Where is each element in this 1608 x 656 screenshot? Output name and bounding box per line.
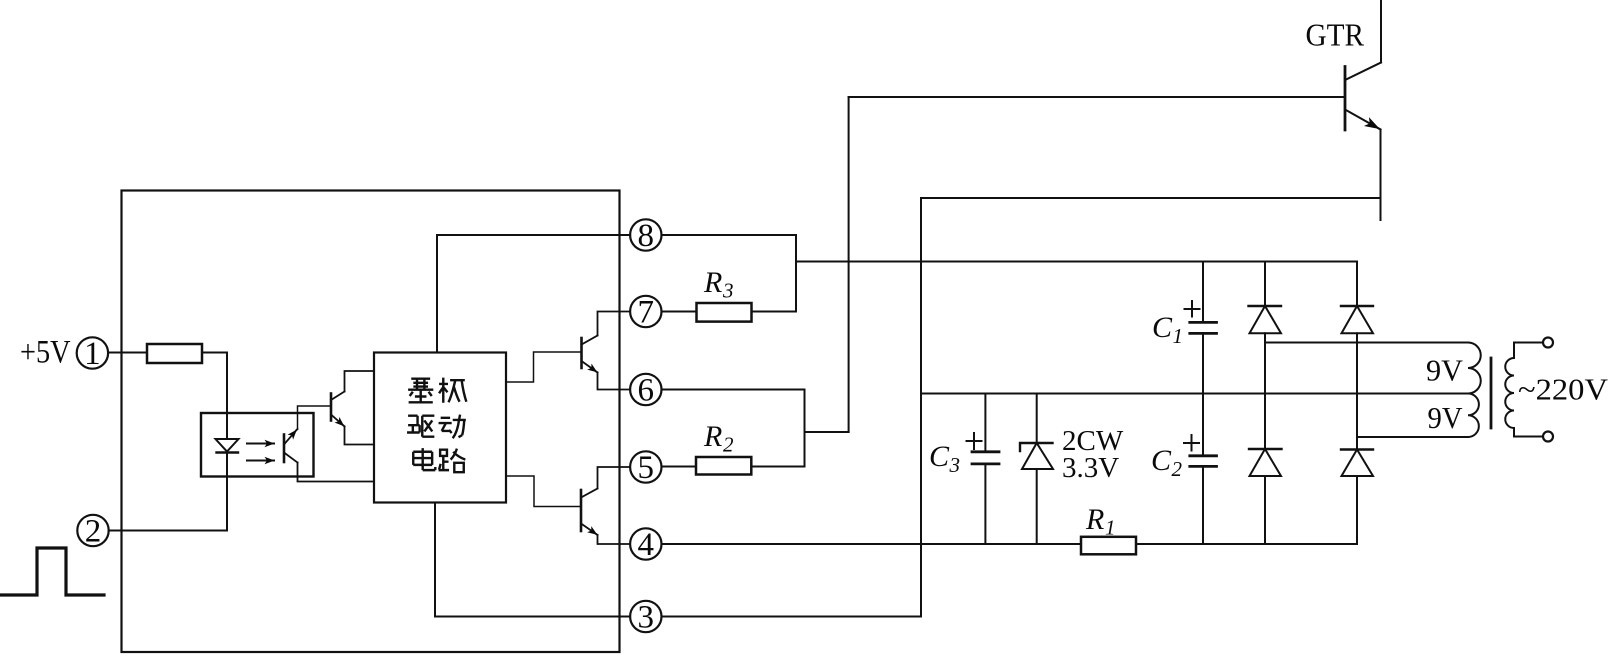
base drive circuit box U1 (374, 353, 506, 503)
wire GTR base riser (848, 97, 850, 432)
zener diode 2CW 3.3V (1020, 394, 1053, 545)
wire R2 to junction (751, 466, 804, 468)
transistor Q3 (582, 312, 631, 390)
svg-text:3: 3 (949, 453, 961, 477)
svg-text:+5V: +5V (20, 335, 71, 371)
wire pin8 to U1 top (437, 235, 630, 353)
svg-text:C: C (1152, 311, 1173, 344)
terminal bottom (1543, 432, 1553, 442)
svg-text:9V: 9V (1426, 353, 1464, 388)
transformer T1 primary coil (1505, 343, 1514, 437)
terminal top (1543, 338, 1553, 348)
wire primary top terminal (1514, 342, 1543, 344)
glyph 基 (408, 379, 433, 403)
glyph 动 (439, 415, 466, 439)
pin 7 (630, 295, 661, 331)
wire U1 to Q4 base (506, 476, 581, 507)
wire pin4 bottom bus left (662, 543, 1082, 545)
wire primary bottom terminal (1514, 436, 1543, 438)
wire pin6 right (662, 389, 805, 391)
capacitor C2 (1184, 394, 1217, 545)
svg-text:3: 3 (638, 600, 655, 636)
diode D1 (1249, 262, 1282, 450)
optocoupler phototransistor Q1 (284, 406, 374, 482)
resistor (input, unlabeled) (147, 344, 202, 363)
pin 5 (630, 450, 661, 486)
svg-text:7: 7 (638, 295, 655, 331)
glyph 电 (413, 448, 435, 470)
wire bottom bus right (1136, 543, 1357, 545)
resistor R1 (1081, 537, 1136, 555)
wire junction vertical pin6/R2 (804, 390, 806, 467)
transistor Q2 (331, 371, 374, 445)
svg-text:6: 6 (638, 373, 655, 409)
transformer T1 secondary coils (1468, 343, 1481, 438)
wire resistor to LED anode (202, 353, 227, 440)
U1 label 基极驱动电路 (drawn glyphs) (407, 378, 466, 473)
capacitor C3 label (929, 440, 960, 477)
pin 3 (630, 600, 661, 636)
svg-text:2: 2 (85, 514, 102, 550)
svg-text:2: 2 (723, 433, 734, 457)
capacitor C1 label (1152, 311, 1183, 348)
svg-text:R: R (1085, 503, 1104, 536)
glyph 极 (439, 378, 466, 403)
wire pin3 right (662, 616, 922, 618)
capacitor C3 (967, 394, 1000, 545)
zener label 2CW 3.3V (1062, 425, 1124, 484)
wire riser pin3 to emitter (920, 198, 922, 617)
diode D4 (1341, 450, 1373, 545)
pin 1 (77, 336, 108, 372)
transistor Q4 (581, 467, 630, 544)
wire branch to GTR base riser (805, 431, 849, 433)
svg-text:3: 3 (722, 279, 734, 303)
svg-text:1: 1 (1173, 324, 1184, 348)
resistor R2 (696, 457, 751, 475)
wire pin1 to resistor (108, 352, 147, 354)
light arrow 2 (247, 460, 274, 462)
optocoupler LED D5 (216, 439, 239, 531)
svg-text:8: 8 (638, 218, 655, 254)
svg-text:1: 1 (84, 336, 101, 372)
resistor R3 label (703, 266, 734, 303)
wire pin5 to R2 (662, 466, 697, 468)
light arrow 1 (247, 443, 274, 445)
wire emitter return (921, 197, 1381, 199)
wire winding B (1357, 436, 1468, 438)
wire junction vertical pin8/R3 (795, 235, 797, 312)
wire mid bus center tap (921, 393, 1468, 395)
glyph 路 (439, 449, 466, 473)
input pulse waveform (0, 548, 104, 595)
svg-text:C: C (1151, 444, 1172, 477)
wire GTR base (849, 96, 1345, 98)
svg-text:9V: 9V (1428, 400, 1464, 435)
resistor R1 label (1085, 503, 1116, 540)
wire +rail top bus (796, 261, 1357, 263)
wire R3 to junction (752, 311, 797, 313)
wire U1 bottom to pin3 (435, 503, 630, 617)
pin 8 (630, 218, 661, 254)
wire winding A (1265, 342, 1468, 344)
resistor R3 (697, 303, 752, 322)
svg-text:~220V: ~220V (1518, 372, 1608, 407)
transformer core (1490, 358, 1493, 428)
diode D3 (1249, 449, 1282, 544)
glyph 驱 (407, 416, 434, 437)
pin 2 (77, 514, 108, 550)
pin 4 (630, 527, 661, 563)
svg-text:C: C (929, 440, 950, 473)
capacitor C2 label (1151, 444, 1183, 481)
diode D2 (1341, 262, 1373, 450)
wire pin2 to LED cathode (109, 530, 227, 532)
svg-text:5: 5 (638, 450, 655, 486)
resistor R2 label (703, 420, 734, 457)
wire U1 to Q3 base (506, 352, 582, 382)
capacitor C1 (1185, 262, 1217, 394)
optocoupler box (201, 413, 314, 477)
svg-text:4: 4 (638, 527, 655, 563)
module outer box (122, 191, 620, 653)
svg-text:R: R (703, 420, 722, 453)
svg-text:R: R (703, 266, 722, 299)
pin 6 (630, 373, 661, 409)
svg-text:2: 2 (1172, 457, 1183, 481)
wire pin7 to R3 (662, 311, 697, 313)
transistor GTR (1345, 0, 1381, 220)
svg-text:GTR: GTR (1306, 17, 1365, 53)
svg-text:3.3V: 3.3V (1062, 452, 1119, 484)
wire pin8 right (662, 234, 797, 236)
